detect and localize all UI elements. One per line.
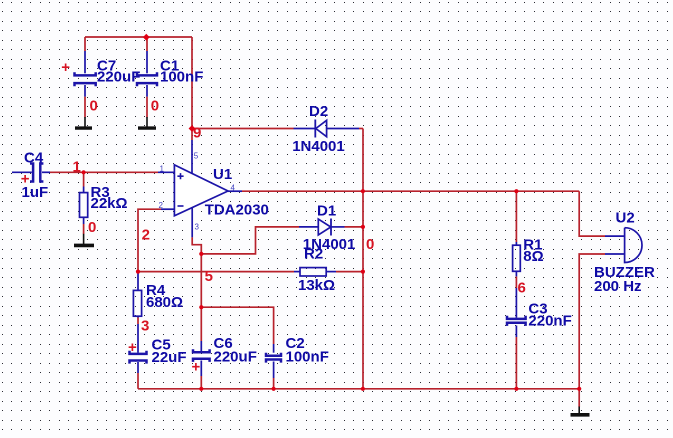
svg-text:8Ω: 8Ω — [523, 248, 543, 265]
wire right rail — [362, 129, 364, 389]
svg-text:1N4001: 1N4001 — [292, 138, 345, 155]
svg-text:22kΩ: 22kΩ — [91, 195, 128, 212]
svg-text:+: + — [61, 59, 70, 76]
junction C3 bottom — [514, 387, 518, 391]
junction C6 bottom — [199, 387, 203, 391]
junction R1 top — [514, 189, 518, 193]
op-amp U1 — [158, 140, 242, 237]
svg-text:TDA2030: TDA2030 — [205, 202, 269, 219]
svg-text:220uF: 220uF — [97, 68, 140, 85]
svg-text:9: 9 — [193, 124, 201, 141]
svg-text:0: 0 — [366, 236, 374, 253]
capacitor C5 — [130, 324, 147, 373]
svg-text:200 Hz: 200 Hz — [594, 278, 642, 295]
wire C3 to bottom rail — [515, 337, 517, 389]
wire R2 to right rail — [336, 271, 363, 273]
svg-text:2: 2 — [159, 201, 164, 210]
wire R4 to C5 — [137, 318, 139, 325]
wire node 1 input — [50, 171, 158, 173]
svg-text:680Ω: 680Ω — [146, 294, 183, 311]
junction node 9 — [189, 125, 196, 132]
wire C6 to bottom rail — [200, 376, 202, 389]
junction rail bottom — [361, 387, 365, 391]
svg-text:U1: U1 — [213, 166, 232, 183]
svg-text:220nF: 220nF — [528, 313, 571, 330]
wire R1 to C3 — [515, 276, 517, 288]
svg-text:6: 6 — [518, 280, 526, 297]
svg-text:5: 5 — [205, 268, 213, 285]
wire output node — [242, 190, 579, 192]
capacitor C1 — [137, 51, 157, 97]
junction node 5 left — [136, 270, 140, 274]
wire node 5 to D1 — [201, 227, 299, 254]
svg-text:5: 5 — [194, 151, 199, 160]
wire D1 to right rail — [345, 226, 363, 228]
svg-text:3: 3 — [141, 318, 149, 335]
svg-text:0: 0 — [151, 97, 159, 114]
wire ground stub right — [578, 389, 580, 407]
svg-text:U2: U2 — [616, 209, 635, 226]
svg-text:4: 4 — [231, 183, 236, 192]
svg-text:+: + — [192, 359, 201, 376]
wire top rail node 9 — [85, 37, 192, 140]
resistor R4 — [133, 272, 141, 318]
wire D2 to right rail — [359, 128, 363, 130]
svg-text:D1: D1 — [317, 203, 336, 220]
resistor R1 — [513, 242, 521, 276]
wire bottom rail — [138, 388, 579, 390]
wire pin 3 to node 5 — [192, 237, 201, 254]
buzzer U2 — [605, 228, 642, 263]
wire node 5 down to C6 — [200, 254, 202, 341]
svg-text:+: + — [21, 171, 30, 188]
wire C5 to bottom rail — [137, 373, 139, 389]
svg-text:C4: C4 — [24, 149, 44, 166]
svg-text:D2: D2 — [309, 103, 328, 120]
svg-text:1: 1 — [73, 159, 81, 176]
capacitor C6 — [193, 341, 210, 376]
capacitor C4 — [12, 164, 50, 182]
resistor R3 — [80, 187, 88, 225]
wire R3 to ground — [83, 224, 85, 234]
svg-text:3: 3 — [195, 223, 200, 232]
junction C2 bottom — [272, 387, 276, 391]
svg-text:2: 2 — [142, 227, 150, 244]
capacitor C3 — [507, 288, 526, 337]
wire C1 to ground — [146, 97, 148, 118]
svg-text:100nF: 100nF — [286, 349, 329, 366]
wire output to R1 — [515, 191, 517, 242]
ground under R3 — [74, 234, 94, 246]
diode D2 — [294, 120, 360, 138]
junction ground right — [577, 387, 581, 391]
wire node 1 to R3 — [83, 172, 85, 186]
resistor R2 — [294, 268, 336, 276]
wire buzzer bottom to ground rail — [579, 254, 605, 389]
svg-text:13kΩ: 13kΩ — [298, 277, 335, 294]
wire C2 to bottom rail — [273, 378, 275, 389]
svg-text:0: 0 — [88, 219, 96, 236]
diode D1 — [299, 219, 345, 236]
ground under C7 — [75, 117, 92, 128]
wire node 2 inverting input — [138, 209, 161, 271]
svg-text:1: 1 — [160, 165, 165, 174]
junction C2 branch — [199, 305, 203, 309]
junction node top rail — [143, 34, 150, 41]
junction pin3 node5 — [199, 252, 203, 256]
svg-text:R2: R2 — [304, 246, 323, 263]
wire node 5 horizontal — [138, 271, 294, 273]
svg-text:220uF: 220uF — [214, 349, 257, 366]
junction node 1 — [82, 170, 86, 174]
wire branch to C2 — [201, 307, 273, 344]
wire node 9 to D2 — [192, 128, 294, 130]
wire output to buzzer top — [579, 191, 605, 236]
ground under C1 — [138, 117, 156, 128]
junction D1 rail — [361, 225, 365, 229]
svg-text:22uF: 22uF — [152, 349, 187, 366]
junction output rail — [361, 189, 365, 193]
capacitor C7 — [75, 51, 96, 97]
svg-text:+: + — [128, 339, 137, 356]
junction R2 rail — [361, 270, 365, 274]
capacitor C2 — [266, 344, 281, 378]
ground bottom right — [571, 407, 590, 415]
wire C7 to ground — [84, 97, 86, 118]
svg-text:0: 0 — [90, 97, 98, 114]
svg-text:100nF: 100nF — [160, 68, 203, 85]
